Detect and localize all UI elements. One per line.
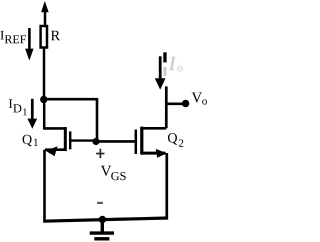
wire Q2 drain up to Vo xyxy=(165,86,168,128)
current arrow ID1 xyxy=(27,99,37,129)
resistor R xyxy=(41,26,47,48)
wire Q2 source down to rail xyxy=(165,153,168,219)
current arrow Io xyxy=(155,56,166,89)
wire gate bus to Q2 xyxy=(96,140,137,143)
wire Vo stub xyxy=(166,103,183,106)
label ID1 xyxy=(9,99,27,115)
transistor Q1 xyxy=(45,127,97,156)
label Io xyxy=(169,57,183,72)
wire drain node to gate connector xyxy=(44,98,98,101)
label Q1 xyxy=(23,135,38,147)
wire Io ghost xyxy=(164,67,167,76)
label VGS xyxy=(101,166,126,180)
node drain Q1 xyxy=(40,96,47,103)
label Q2 xyxy=(168,133,183,147)
wire resistor to drain node xyxy=(43,48,46,102)
transistor Q2 xyxy=(136,127,167,158)
wire Q1 source down to rail xyxy=(43,150,46,223)
current arrow IREF xyxy=(25,28,33,61)
wire gate connector vertical xyxy=(96,99,99,141)
ground xyxy=(90,220,114,239)
node ground junction xyxy=(99,216,106,223)
wire bottom rail xyxy=(43,218,168,221)
wire Io stub top xyxy=(163,52,166,62)
node Vo xyxy=(182,100,189,107)
node gate bus xyxy=(92,138,99,145)
label minus xyxy=(97,202,103,204)
label IREF xyxy=(0,31,26,43)
wire drain node down to Q1 xyxy=(43,100,46,130)
top supply arrow xyxy=(41,1,49,26)
label R xyxy=(51,31,60,40)
label plus xyxy=(96,149,104,158)
label Vo xyxy=(192,92,207,104)
